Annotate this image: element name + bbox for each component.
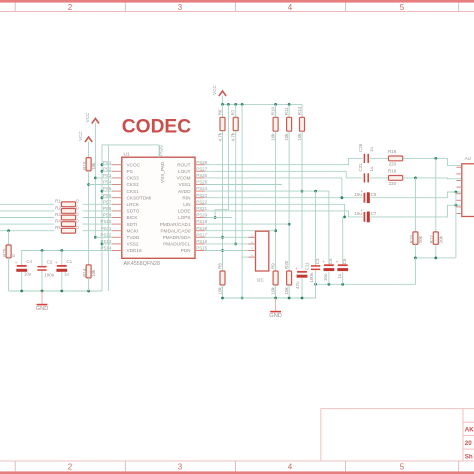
wire VSS_PAD strap bbox=[102, 145, 159, 291]
resistor R16 220 bbox=[389, 156, 403, 161]
wires chip right rows bbox=[205, 184, 282, 186]
power VCC bbox=[219, 91, 226, 96]
wire LOUT bbox=[205, 171, 363, 178]
wire VCC top rail bbox=[222, 96, 224, 105]
svg-text:C7: C7 bbox=[371, 211, 377, 216]
svg-text:C1: C1 bbox=[66, 259, 72, 264]
svg-text:2: 2 bbox=[68, 462, 73, 471]
wire VCC strap to I2C bbox=[241, 104, 243, 298]
svg-text:C6: C6 bbox=[342, 258, 347, 264]
capacitor C1 1u bbox=[57, 265, 67, 267]
resistor R9 10k bbox=[273, 271, 278, 285]
svg-text:R7: R7 bbox=[231, 109, 236, 115]
svg-text:C26: C26 bbox=[358, 143, 363, 152]
svg-text:C4: C4 bbox=[26, 259, 32, 264]
capacitor C4 10u bbox=[17, 265, 27, 267]
svg-text:R19: R19 bbox=[409, 235, 414, 244]
svg-text:R10: R10 bbox=[271, 107, 276, 116]
svg-text:LRCK: LRCK bbox=[127, 202, 140, 207]
resistor R17 20k bbox=[435, 158, 437, 232]
sheet border frame bbox=[0, 0, 474, 3]
capacitor C3 100n bbox=[315, 191, 317, 266]
svg-text:R17: R17 bbox=[429, 235, 434, 244]
svg-text:CKS0/TDMi: CKS0/TDMi bbox=[127, 195, 152, 200]
svg-text:10k: 10k bbox=[297, 133, 302, 141]
resistor R5 0ohm bbox=[0, 230, 54, 232]
wire LIN row bbox=[205, 211, 363, 217]
svg-text:C31: C31 bbox=[358, 163, 363, 172]
svg-text:2: 2 bbox=[68, 3, 73, 12]
wire RIN row bbox=[205, 197, 363, 199]
svg-text:LOUT: LOUT bbox=[178, 169, 191, 174]
svg-text:4.7k: 4.7k bbox=[218, 132, 223, 141]
svg-text:PS8: PS8 bbox=[103, 206, 112, 211]
svg-text:PS3: PS3 bbox=[103, 173, 112, 178]
svg-text:PS1: PS1 bbox=[103, 160, 112, 165]
capacitor C11 47u bbox=[297, 271, 307, 273]
svg-text:PS26: PS26 bbox=[196, 173, 207, 178]
svg-text:20k: 20k bbox=[418, 235, 423, 243]
svg-text:220: 220 bbox=[389, 181, 397, 186]
svg-text:4.7k: 4.7k bbox=[231, 132, 236, 141]
ground bbox=[41, 291, 43, 305]
svg-text:R20: R20 bbox=[2, 248, 7, 257]
svg-text:LIN: LIN bbox=[183, 202, 190, 207]
svg-text:MCKI: MCKI bbox=[127, 228, 139, 233]
svg-text:5: 5 bbox=[400, 3, 405, 12]
wire connector bias link bbox=[455, 192, 457, 258]
svg-text:R1: R1 bbox=[55, 199, 61, 204]
resistor R14 10k bbox=[86, 265, 91, 278]
svg-text:PS21: PS21 bbox=[196, 206, 207, 211]
resistor R3 0ohm bbox=[0, 217, 54, 219]
svg-text:BICK: BICK bbox=[127, 215, 139, 220]
connector I2C bbox=[256, 231, 269, 271]
ground bbox=[275, 298, 277, 312]
capacitor C31 1u bbox=[364, 173, 366, 182]
svg-text:10u: 10u bbox=[354, 211, 362, 216]
svg-text:C11: C11 bbox=[305, 262, 310, 270]
svg-text:GND: GND bbox=[269, 313, 282, 319]
svg-text:LDOE: LDOE bbox=[178, 209, 191, 214]
wire R16 out bbox=[403, 158, 463, 165]
svg-text:R13: R13 bbox=[297, 107, 302, 116]
svg-text:220: 220 bbox=[389, 162, 397, 167]
svg-text:Sh: Sh bbox=[465, 454, 473, 461]
svg-text:PS6: PS6 bbox=[103, 193, 112, 198]
svg-text:CKS3: CKS3 bbox=[127, 176, 140, 181]
svg-text:PS7: PS7 bbox=[103, 199, 112, 204]
capacitor C26 1u bbox=[364, 154, 366, 163]
resistor R30 10k bbox=[287, 271, 292, 285]
svg-text:GND: GND bbox=[36, 306, 49, 312]
svg-text:PS4: PS4 bbox=[103, 180, 112, 185]
svg-text:PS27: PS27 bbox=[196, 166, 207, 171]
capacitor C7 10u bbox=[364, 212, 366, 222]
svg-text:R16: R16 bbox=[388, 149, 397, 154]
svg-text:R15: R15 bbox=[82, 161, 87, 170]
svg-text:20: 20 bbox=[465, 440, 472, 447]
svg-text:AU: AU bbox=[465, 156, 471, 161]
resistor R19 20k bbox=[414, 178, 416, 232]
svg-text:PS24: PS24 bbox=[196, 186, 207, 191]
svg-text:PS11: PS11 bbox=[101, 226, 112, 231]
svg-text:10u: 10u bbox=[354, 192, 362, 197]
svg-text:PMADR/SDA: PMADR/SDA bbox=[163, 235, 192, 240]
wire I2C pin4 to rail bbox=[242, 256, 248, 258]
wire VCOM jog bbox=[205, 178, 342, 198]
svg-text:4: 4 bbox=[288, 462, 293, 471]
svg-text:AVDD: AVDD bbox=[178, 189, 191, 194]
resistor R8 10k bbox=[220, 271, 225, 285]
svg-text:VDD18: VDD18 bbox=[127, 248, 143, 253]
svg-text:R2: R2 bbox=[55, 205, 61, 210]
svg-text:PS28: PS28 bbox=[196, 160, 207, 165]
resistor R7 4.7k bbox=[235, 104, 237, 117]
svg-text:CKS1: CKS1 bbox=[127, 189, 140, 194]
svg-text:AK: AK bbox=[465, 427, 474, 434]
svg-text:+: + bbox=[336, 260, 338, 264]
svg-text:10k: 10k bbox=[271, 286, 276, 294]
svg-text:VCC: VCC bbox=[85, 112, 90, 122]
capacitor C6 1u bbox=[342, 217, 344, 265]
svg-text:PDN: PDN bbox=[181, 248, 191, 253]
svg-text:I2C: I2C bbox=[257, 278, 265, 283]
svg-text:PS15: PS15 bbox=[196, 246, 207, 251]
svg-text:PS16: PS16 bbox=[196, 239, 207, 244]
svg-text:PMADU/SCL: PMADU/SCL bbox=[163, 242, 191, 247]
svg-text:1u: 1u bbox=[64, 272, 70, 277]
svg-text:10k: 10k bbox=[271, 133, 276, 141]
svg-text:ROUT: ROUT bbox=[177, 162, 190, 167]
svg-text:R30: R30 bbox=[284, 260, 289, 269]
svg-text:PS17: PS17 bbox=[196, 232, 207, 237]
power VCC bbox=[92, 119, 99, 124]
svg-text:5: 5 bbox=[400, 462, 405, 471]
resistor R13 10k bbox=[301, 104, 303, 117]
capacitor C5 10u bbox=[324, 264, 334, 266]
wire LIN2 jog bbox=[205, 204, 345, 217]
svg-text:RIN: RIN bbox=[182, 195, 190, 200]
svg-text:100n: 100n bbox=[309, 272, 314, 283]
wire VDD18 decoupling rail bbox=[22, 251, 112, 266]
svg-text:CODEC: CODEC bbox=[122, 117, 191, 138]
svg-text:R6: R6 bbox=[218, 109, 223, 115]
resistor R10 10k bbox=[275, 104, 277, 117]
svg-text:10u: 10u bbox=[24, 272, 32, 277]
capacitor C8 10u bbox=[364, 193, 366, 203]
svg-text:LOPS: LOPS bbox=[178, 215, 191, 220]
svg-text:PS25: PS25 bbox=[196, 180, 207, 185]
svg-text:VCC: VCC bbox=[212, 85, 217, 95]
resistor R20 0ohm bbox=[7, 229, 10, 232]
title block bbox=[321, 409, 474, 461]
connector AUDIO bbox=[462, 164, 474, 217]
svg-text:+: + bbox=[55, 261, 57, 265]
svg-text:SDTI: SDTI bbox=[127, 222, 138, 227]
svg-text:47u: 47u bbox=[295, 281, 300, 289]
svg-text:4: 4 bbox=[288, 3, 293, 12]
svg-text:20k: 20k bbox=[438, 235, 443, 243]
IC U1 AK4558QFN28 bbox=[122, 157, 195, 258]
svg-text:TVDD: TVDD bbox=[127, 235, 140, 240]
svg-text:VSS_PAD: VSS_PAD bbox=[160, 161, 165, 183]
power VCC bbox=[85, 137, 92, 142]
svg-text:R5: R5 bbox=[55, 225, 61, 230]
wire VCC to PS3 PS12 bbox=[94, 123, 96, 237]
svg-text:R9: R9 bbox=[271, 263, 276, 269]
svg-text:PS29: PS29 bbox=[158, 145, 163, 156]
svg-text:R3: R3 bbox=[55, 212, 61, 217]
svg-text:R4: R4 bbox=[55, 219, 61, 224]
wire R18 out bbox=[403, 177, 463, 180]
wire C8 out bbox=[370, 192, 463, 198]
svg-text:PS: PS bbox=[127, 169, 133, 174]
svg-text:R14: R14 bbox=[82, 268, 87, 277]
svg-text:U1: U1 bbox=[124, 151, 130, 157]
wire VCC strap to PS20 bbox=[215, 104, 228, 217]
svg-text:R18: R18 bbox=[388, 169, 397, 174]
svg-text:PS5: PS5 bbox=[103, 186, 112, 191]
svg-text:C2: C2 bbox=[47, 260, 53, 265]
svg-text:10k: 10k bbox=[218, 286, 223, 294]
svg-text:+: + bbox=[295, 267, 297, 271]
svg-text:3: 3 bbox=[178, 3, 183, 12]
svg-text:PS22: PS22 bbox=[196, 199, 207, 204]
svg-text:+: + bbox=[322, 260, 324, 264]
wire C7 out bbox=[370, 205, 463, 217]
svg-text:CKS2: CKS2 bbox=[127, 182, 140, 187]
resistor R11 10k bbox=[288, 104, 290, 117]
svg-text:C8: C8 bbox=[371, 192, 377, 197]
svg-text:10u: 10u bbox=[323, 273, 328, 281]
svg-text:+: + bbox=[15, 261, 17, 265]
svg-text:VSS2: VSS2 bbox=[127, 242, 139, 247]
wire pin stubs left bbox=[102, 164, 112, 166]
svg-text:SDTO: SDTO bbox=[127, 209, 140, 214]
resistor R18 220 bbox=[389, 176, 403, 181]
wire C31 to R18 bbox=[370, 177, 388, 179]
svg-text:VCOM: VCOM bbox=[176, 176, 190, 181]
resistor R1 0ohm bbox=[0, 203, 54, 205]
svg-text:1u: 1u bbox=[337, 273, 342, 279]
wire 20k bottom node bbox=[417, 257, 456, 259]
svg-text:10k: 10k bbox=[91, 269, 96, 277]
svg-text:PS20: PS20 bbox=[196, 213, 207, 218]
resistor R15 10k bbox=[88, 142, 90, 158]
wire C26 to R16 bbox=[370, 157, 388, 159]
svg-text:PMDAL/CAD0: PMDAL/CAD0 bbox=[161, 228, 191, 233]
svg-text:C3: C3 bbox=[315, 258, 320, 264]
svg-text:VSS1: VSS1 bbox=[179, 182, 191, 187]
svg-text:PS23: PS23 bbox=[196, 193, 207, 198]
svg-text:1u: 1u bbox=[369, 166, 374, 172]
ground rail left bbox=[9, 290, 102, 292]
wire ROUT bbox=[205, 158, 363, 164]
wire AVDD row bbox=[205, 191, 329, 265]
svg-text:3: 3 bbox=[178, 462, 183, 471]
resistor R4 0ohm bbox=[0, 223, 54, 225]
resistor R6 4.7k bbox=[222, 104, 224, 117]
svg-text:VCOC: VCOC bbox=[127, 162, 141, 167]
svg-text:C5: C5 bbox=[328, 258, 333, 264]
svg-text:PMDAR/CAD1: PMDAR/CAD1 bbox=[160, 222, 191, 227]
wire parallel strap bbox=[107, 145, 109, 291]
svg-text:VCC: VCC bbox=[78, 131, 83, 141]
svg-text:1u: 1u bbox=[369, 146, 374, 152]
svg-text:R8: R8 bbox=[218, 263, 223, 269]
svg-text:PS19: PS19 bbox=[196, 219, 207, 224]
capacitor C2 100n bbox=[37, 266, 46, 268]
svg-text:PS2: PS2 bbox=[103, 166, 112, 171]
ground rail center bbox=[223, 297, 316, 299]
resistor R2 0ohm bbox=[0, 210, 54, 212]
svg-text:10k: 10k bbox=[284, 133, 289, 141]
svg-text:100n: 100n bbox=[44, 272, 55, 277]
svg-text:PS9: PS9 bbox=[103, 213, 112, 218]
svg-text:PS18: PS18 bbox=[196, 226, 207, 231]
svg-text:AK4558QFN28: AK4558QFN28 bbox=[124, 261, 161, 267]
svg-text:10k: 10k bbox=[284, 286, 289, 294]
svg-text:R11: R11 bbox=[284, 107, 289, 115]
